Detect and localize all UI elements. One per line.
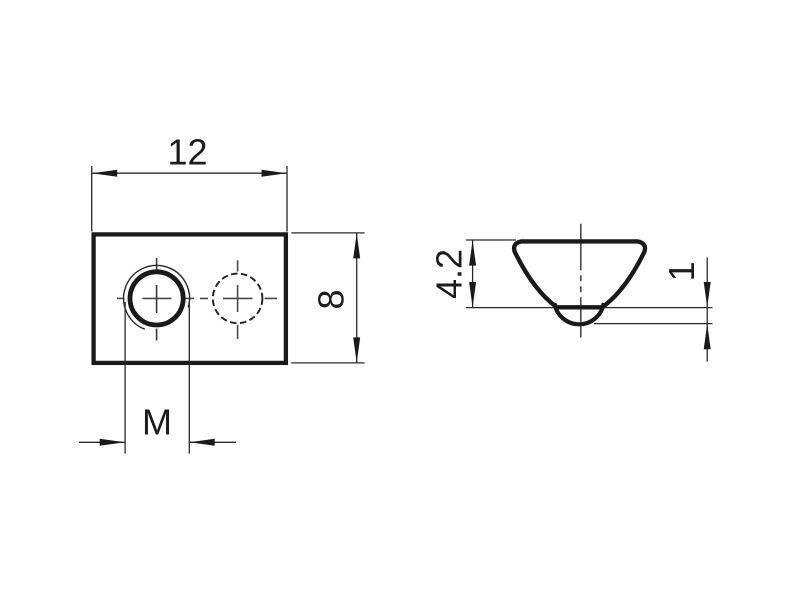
side view: vertical centerline xyxy=(580,224,582,338)
second hole crosshair horizontal centerline xyxy=(200,297,277,299)
svg-text:1: 1 xyxy=(661,261,702,281)
threaded hole crosshair horizontal centerline xyxy=(117,297,194,299)
dimension M: left arrowhead pointing right xyxy=(100,439,125,446)
threaded hole M: outer thread arc (3/4 circle) xyxy=(124,265,190,329)
dimension 8: bottom arrowhead xyxy=(353,337,360,362)
dimension M: left extension line xyxy=(124,302,126,454)
dimension 12: left extension line xyxy=(91,166,93,232)
second hole crosshair vertical centerline xyxy=(237,260,239,339)
side view: bottom face extension line (long) xyxy=(466,307,713,309)
dimension 4.2: top arrowhead xyxy=(469,240,476,265)
dimension 8: bottom extension line xyxy=(291,362,364,364)
dimension 12: right extension line xyxy=(286,166,288,232)
svg-text:M: M xyxy=(142,401,172,442)
dimension 1: dimension line xyxy=(706,258,708,362)
dimension 4.2: dimension line xyxy=(472,240,474,308)
side view: top face extension line xyxy=(466,239,516,241)
svg-text:4.2: 4.2 xyxy=(428,249,469,299)
second hole: hidden circle (dashed) xyxy=(213,274,263,324)
dimension M: right arrowhead pointing left xyxy=(190,439,215,446)
svg-text:8: 8 xyxy=(311,289,352,309)
side view: nut body profile xyxy=(514,241,645,307)
svg-text:12: 12 xyxy=(167,132,207,173)
threaded hole M: tap drill circle (thick) xyxy=(130,272,183,325)
dimension M: right outside dimension line xyxy=(189,441,236,443)
dimension M: right extension line xyxy=(188,302,190,454)
dimension 8: dimension line xyxy=(356,233,358,363)
dimension M: left outside dimension line xyxy=(79,441,125,443)
top view: nut body rectangle xyxy=(94,234,286,363)
threaded hole crosshair vertical centerline xyxy=(156,258,158,341)
dimension 8: top extension line xyxy=(291,232,364,234)
dimension 8: top arrowhead xyxy=(353,233,360,258)
dimension 4.2: bottom arrowhead xyxy=(469,282,476,307)
dimension 1: upper arrowhead pointing down xyxy=(704,282,711,307)
side view: spring ball bump arc xyxy=(554,303,603,324)
dimension 12: dimension line xyxy=(92,172,287,174)
dimension 1: bottom extension line xyxy=(594,323,713,325)
dimension 1: lower arrowhead pointing up xyxy=(704,324,711,349)
dimension 12: right arrowhead xyxy=(262,170,287,177)
dimension 12: left arrowhead xyxy=(92,170,117,177)
